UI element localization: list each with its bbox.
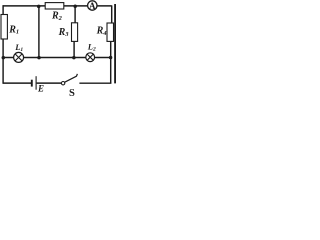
svg-text:L1: L1: [14, 42, 23, 53]
wire: bottom bus middle (battery to switch): [37, 82, 62, 84]
svg-text:L2: L2: [87, 42, 96, 53]
resistor R1: [1, 15, 7, 40]
wire: R3 bottom stem: [73, 41, 75, 57]
battery E negative plate (short thick): [31, 80, 33, 87]
switch S lever: [65, 74, 78, 82]
wire: R4 bottom stem to bottom-right corner: [110, 41, 112, 83]
svg-text:R1: R1: [8, 24, 19, 35]
switch S pivot: [61, 82, 64, 85]
wire: left vertical (top corner to R1 top): [2, 5, 4, 15]
wire: left vertical (R1 bottom to bottom-left corner): [2, 39, 4, 84]
resistor R3: [72, 23, 78, 42]
wire: top horizontal bus: [3, 5, 112, 7]
svg-text:R3: R3: [58, 27, 70, 38]
junction node: right wire / lamp line: [109, 56, 113, 60]
junction node: left wire / lamp line: [2, 56, 6, 60]
svg-text:R2: R2: [51, 11, 63, 22]
wire: bottom bus right (switch to corner): [79, 82, 111, 84]
resistor R2: [45, 3, 64, 9]
wire: right vertical upper (top bus to R4 top): [111, 5, 113, 23]
wire: middle branch vertical (top bus to lamp line): [38, 6, 40, 58]
svg-text:E: E: [37, 84, 44, 94]
svg-text:S: S: [69, 88, 75, 99]
junction node: top bus / middle branch: [37, 5, 41, 8]
lamp L2: [86, 53, 95, 62]
ammeter A: [88, 1, 97, 11]
wire: R3 top stem: [74, 6, 76, 23]
svg-text:R4: R4: [96, 26, 108, 37]
resistor R4: [107, 23, 114, 41]
right page-edge border line: [114, 4, 116, 83]
junction node: R3 stem / lamp line: [72, 56, 76, 60]
battery E positive plate (long thin): [35, 76, 37, 90]
wire: bottom bus left (corner to battery): [3, 82, 32, 84]
wire: lamp line horizontal: [3, 57, 111, 59]
svg-text:A: A: [89, 1, 96, 11]
junction node: top bus / R3 stem: [73, 5, 77, 9]
junction node: middle branch / lamp line: [37, 56, 41, 60]
lamp L1: [14, 52, 24, 62]
